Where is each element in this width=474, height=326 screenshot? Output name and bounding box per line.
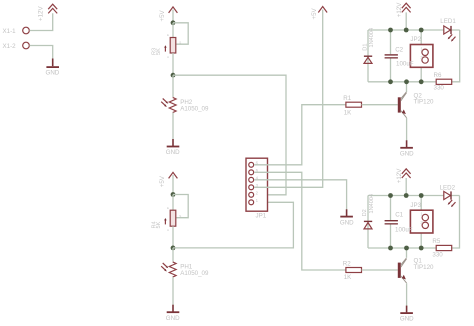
wire R1 to Q2 base	[362, 104, 398, 106]
LED LED2	[440, 184, 456, 207]
svg-text:5K: 5K	[156, 221, 162, 228]
svg-text:1N4004: 1N4004	[369, 28, 375, 48]
wire D1 branch	[367, 30, 369, 82]
node JP2 pin1 rail	[419, 28, 424, 33]
+12V supply symbol (X1)	[38, 4, 58, 21]
wire PH1 to GND	[172, 277, 174, 305]
wire Q1 emitter to GND	[406, 283, 408, 306]
wire Q2 collector	[406, 82, 408, 92]
svg-text:E: E	[167, 206, 169, 210]
wire +12V rail (bottom circuit)	[368, 195, 444, 197]
svg-text:1K: 1K	[344, 274, 352, 281]
node R3/PH2 junction	[171, 73, 176, 78]
capacitor C1 labels	[395, 211, 413, 233]
wire R6 to LED1 cathode	[451, 30, 460, 82]
ground (JP1 pin 4)	[340, 209, 354, 226]
svg-text:X1-1: X1-1	[3, 28, 17, 35]
potentiometer R3	[152, 33, 182, 59]
node C2 top	[388, 28, 393, 33]
svg-text:+12V: +12V	[38, 6, 45, 21]
wire +12V stem (bottom circuit)	[405, 178, 407, 196]
svg-text:A: A	[167, 228, 169, 232]
svg-text:100uF: 100uF	[395, 227, 413, 234]
diode D1	[362, 28, 375, 64]
wire +5V to node	[172, 175, 174, 195]
wire node to JP1 pin 1	[173, 202, 293, 248]
wire node to JP1 pin 2	[173, 75, 286, 195]
node C1 top	[388, 193, 393, 198]
svg-text:330: 330	[434, 85, 445, 92]
+12V supply symbol (top circuit)	[396, 2, 411, 17]
svg-text:GND: GND	[400, 150, 414, 157]
svg-text:GND: GND	[340, 219, 354, 226]
svg-text:1K: 1K	[344, 109, 352, 116]
wire JP2 pin1	[420, 30, 422, 50]
transistor Q1	[398, 258, 434, 284]
node at R3 top	[171, 20, 176, 25]
wire D2 branch	[367, 196, 369, 249]
svg-text:D1: D1	[362, 44, 368, 51]
svg-text:LED2: LED2	[440, 184, 456, 191]
svg-text:D2: D2	[362, 209, 368, 216]
wire C2	[390, 30, 392, 82]
svg-text:GND: GND	[46, 70, 60, 77]
wire JP1 pin 4 to GND	[254, 180, 347, 210]
svg-text:X1-2: X1-2	[3, 43, 17, 50]
svg-text:C2: C2	[395, 47, 403, 54]
connector JP1	[246, 158, 268, 219]
svg-text:R5: R5	[432, 238, 440, 245]
photoresistor PH2	[161, 97, 209, 112]
node R4/PH1 junction	[171, 246, 176, 251]
wire JP1 pin 6 to R1	[254, 105, 346, 165]
node JP3 pin2 rail	[419, 246, 424, 251]
svg-text:C1: C1	[395, 211, 403, 218]
svg-text:A1050_09: A1050_09	[180, 270, 209, 277]
connector pin X1-2	[3, 42, 30, 50]
wire +12V rail (top circuit)	[368, 29, 444, 31]
node C1 bottom	[388, 246, 393, 251]
+5V supply symbol (bottom divider)	[159, 172, 177, 187]
svg-text:GND: GND	[166, 149, 180, 156]
node +12V rail bottom	[404, 193, 409, 198]
svg-text:LED1: LED1	[440, 18, 456, 25]
svg-text:S: S	[179, 41, 181, 45]
svg-text:TIP120: TIP120	[414, 99, 435, 106]
resistor R6	[434, 72, 452, 91]
ground (bottom divider)	[166, 305, 180, 322]
svg-text:JP3: JP3	[410, 202, 421, 209]
wire node to PH2	[172, 75, 174, 97]
wire JP3 pin1	[420, 196, 422, 216]
connector pin X1-1	[3, 27, 30, 35]
node C2 bottom	[388, 79, 393, 84]
node Q1 collector rail	[404, 246, 409, 251]
svg-text:330: 330	[432, 252, 443, 259]
capacitor C1	[385, 220, 398, 225]
wire R3 wiper loop	[173, 23, 188, 44]
svg-text:JP2: JP2	[410, 36, 421, 43]
+5V supply symbol (top divider)	[159, 7, 177, 22]
svg-text:+5V: +5V	[159, 9, 166, 21]
ground (Q1)	[400, 306, 414, 323]
capacitor C2	[385, 54, 398, 58]
wire X1-1 to +12V	[30, 13, 53, 30]
svg-text:A1050_09: A1050_09	[180, 106, 209, 113]
wire X1-2 to GND	[30, 46, 53, 60]
svg-text:5K: 5K	[156, 48, 162, 55]
ground (Q2)	[400, 140, 414, 157]
ground (X1)	[46, 59, 60, 77]
wire PH2 to GND	[172, 113, 174, 140]
wire Q1 collector	[406, 248, 408, 258]
svg-text:+5V: +5V	[311, 7, 318, 19]
svg-text:R1: R1	[343, 95, 351, 102]
wire emitter rail (bottom circuit)	[368, 247, 436, 249]
svg-text:S: S	[179, 214, 181, 218]
wire R2 to Q1 base	[362, 269, 398, 271]
potentiometer R4	[152, 206, 182, 232]
svg-text:A: A	[167, 55, 169, 59]
resistor R1	[343, 95, 361, 116]
svg-text:E: E	[167, 33, 169, 37]
ground (top divider)	[166, 139, 180, 156]
svg-text:TIP120: TIP120	[414, 264, 435, 271]
svg-text:+12V: +12V	[396, 2, 403, 17]
wire Q2 emitter to GND	[406, 118, 408, 141]
wire +5V to node	[172, 10, 174, 23]
wire +12V stem (top circuit)	[405, 12, 407, 30]
wire R3 to node 2	[172, 53, 174, 75]
wire R4 to node 2	[172, 226, 174, 248]
LED LED1	[440, 18, 456, 41]
wire emitter rail (top circuit)	[368, 81, 436, 83]
svg-text:R2: R2	[343, 260, 351, 267]
node at R4 top	[171, 192, 176, 197]
node JP2 pin2 rail	[419, 79, 424, 84]
svg-text:R6: R6	[434, 72, 442, 79]
svg-text:+5V: +5V	[159, 175, 166, 187]
svg-text:GND: GND	[166, 315, 180, 322]
wire JP3 pin2	[420, 229, 422, 248]
wire node to R3	[172, 23, 174, 38]
wire JP1 pin 5 to R2	[254, 172, 346, 270]
+12V supply symbol (bottom circuit)	[396, 168, 411, 183]
node Q2 collector rail	[404, 79, 409, 84]
wire R5 to LED2 cathode	[451, 196, 460, 249]
photoresistor PH1	[161, 262, 209, 277]
connector JP2	[410, 36, 433, 67]
connector JP3	[410, 202, 433, 233]
resistor R5	[432, 238, 451, 259]
capacitor C2 labels	[395, 47, 414, 68]
svg-text:JP1: JP1	[256, 212, 267, 219]
diode D2	[362, 194, 375, 229]
svg-text:GND: GND	[400, 316, 414, 323]
wire C1	[390, 196, 392, 249]
svg-text:100uF: 100uF	[396, 61, 414, 68]
node JP3 pin1 rail	[419, 193, 424, 198]
wire JP2 pin2	[420, 63, 422, 82]
svg-text:1N4004: 1N4004	[369, 194, 375, 214]
wire node to R4	[172, 195, 174, 211]
+5V supply symbol (JP1 pin 3)	[311, 7, 327, 20]
node +12V rail	[404, 28, 409, 33]
wire JP1 pin 3 to +5V	[254, 10, 323, 188]
resistor R2	[343, 260, 362, 281]
wire R4 wiper loop	[173, 195, 188, 218]
wire node to PH1	[172, 248, 174, 262]
svg-text:+12V: +12V	[396, 168, 403, 183]
transistor Q2	[398, 92, 434, 118]
